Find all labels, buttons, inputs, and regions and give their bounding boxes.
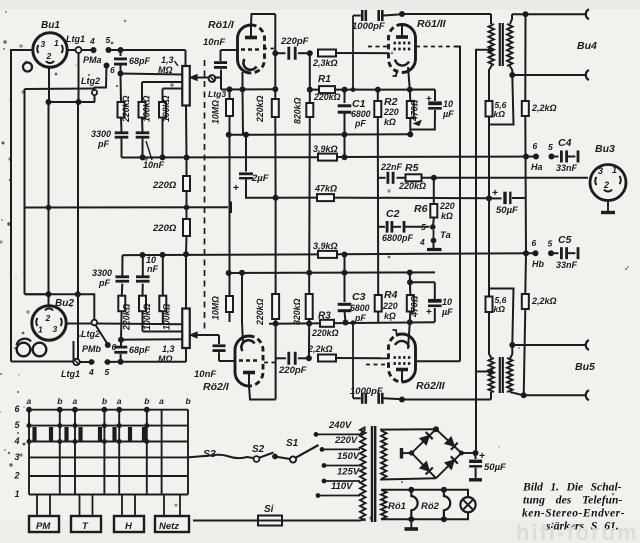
svg-text:Bild 1. Die Schal-: Bild 1. Die Schal- <box>522 481 622 494</box>
svg-text:µF: µF <box>442 109 454 119</box>
resistor R6 220k <box>433 178 435 204</box>
svg-text:C3: C3 <box>352 291 366 303</box>
capacitor 1000pF feedback ch2 <box>353 397 361 399</box>
resistor 2.2k grid stopper ch2 <box>318 355 336 362</box>
wire T2 secondary top <box>510 345 513 360</box>
capacitor 3300pF ch1 <box>120 118 123 133</box>
svg-text:+: + <box>426 94 432 105</box>
terminal Bu4 upper <box>586 9 589 19</box>
svg-text:3: 3 <box>15 452 20 462</box>
svg-text:+: + <box>233 182 239 194</box>
svg-text:220: 220 <box>382 301 398 311</box>
S3 contact nodes <box>27 423 32 428</box>
node bridge top corner <box>433 426 439 432</box>
svg-text:kΩ: kΩ <box>384 117 396 127</box>
svg-text:220Ω: 220Ω <box>152 180 177 191</box>
svg-text:R3: R3 <box>318 311 331 322</box>
svg-text:Ha: Ha <box>531 162 543 172</box>
scan artifact arrow <box>414 121 421 126</box>
resistor 220R lower <box>186 207 188 219</box>
svg-text:10nF: 10nF <box>194 369 216 380</box>
node T2 secondary bottom on rail <box>521 392 527 398</box>
svg-text:5: 5 <box>105 367 110 377</box>
svg-text:125V: 125V <box>337 467 360 478</box>
heater Rö1 element <box>411 490 417 520</box>
svg-text:kΩ: kΩ <box>494 109 506 119</box>
svg-text:220pF: 220pF <box>278 365 307 376</box>
resistor 220k input ch2 <box>120 311 123 340</box>
capacitor 10uF cathode ch1 <box>410 89 435 91</box>
wire middle bus C ground line y207.5 <box>25 206 229 208</box>
svg-text:2,3kΩ: 2,3kΩ <box>312 58 338 68</box>
svg-text:150V: 150V <box>337 451 360 462</box>
resistor 100k b ch2 <box>162 311 164 324</box>
svg-text:68pF: 68pF <box>129 56 151 66</box>
resistor 220R upper <box>186 158 188 177</box>
capacitor 10nF grid ch2 <box>218 335 220 344</box>
svg-text:10nF: 10nF <box>143 160 165 170</box>
resistor 220k plate ch2 <box>272 294 279 319</box>
terminal Ltg2 lower <box>92 320 98 326</box>
node R2 top <box>375 87 381 93</box>
transformer T2 core <box>499 357 501 393</box>
shield enclosure wire left border <box>11 50 32 362</box>
transformer TR heater secondary <box>381 490 387 520</box>
svg-text:Bu5: Bu5 <box>575 361 595 373</box>
svg-text:2: 2 <box>14 471 20 481</box>
svg-text:33nF: 33nF <box>556 163 578 173</box>
wire S3 to switch S2 <box>188 455 254 458</box>
node junction 68pF ch2 <box>118 359 124 365</box>
svg-text:S1: S1 <box>286 438 299 449</box>
svg-text:5: 5 <box>106 35 111 45</box>
grid system dashed link tubes ch1 <box>263 48 274 50</box>
plate rail x275 ch1 <box>274 14 276 99</box>
svg-text:Rö2/II: Rö2/II <box>416 380 446 392</box>
wire bus B 47k line <box>276 197 317 199</box>
plate rail x275 ch2 <box>275 198 277 294</box>
wire HV secondary to bridge top <box>381 429 436 430</box>
capacitor 68pF channel2 <box>120 354 122 362</box>
capacitor C4 33nF <box>552 156 559 158</box>
wire pot bottom stub ch2 <box>185 348 187 362</box>
capacitor 220pF coupling ch2 <box>276 357 286 359</box>
potentiometer 1.3M ch2 <box>182 309 190 349</box>
node 47k to 5.6k rail <box>486 195 492 201</box>
svg-text:a: a <box>117 396 122 406</box>
diode D4 bridge bottom-right <box>445 460 454 469</box>
svg-text:PMa: PMa <box>83 55 102 65</box>
wire Bu2 box bottom <box>11 341 74 362</box>
svg-text:Rö2/I: Rö2/I <box>203 381 230 393</box>
svg-text:4: 4 <box>419 237 425 247</box>
svg-text:Rö2: Rö2 <box>421 501 440 512</box>
wire 2uF to 47k bus B <box>246 180 276 198</box>
wire Rö2/I plate to rail <box>249 386 276 400</box>
node Hb tap on speaker rail ch2 <box>523 250 529 256</box>
capacitor 10nF ch2 <box>142 284 144 296</box>
heater bottom wire <box>381 518 467 520</box>
transformer TR HV secondary <box>381 431 387 479</box>
potentiometer 1.3M ch1 <box>185 50 187 66</box>
svg-text:a: a <box>159 396 164 406</box>
switch S3 matrix rows <box>29 409 188 411</box>
terminal Bu5 lower <box>586 390 589 400</box>
bridge rectifier diamond <box>412 429 436 453</box>
transformer T2 primary winding <box>489 358 495 392</box>
svg-text:3: 3 <box>598 166 603 176</box>
resistor R5 220k <box>406 174 422 181</box>
wire Bu2 pin2 bus y294 <box>25 293 78 295</box>
resistor 220k input ch1 <box>120 76 123 103</box>
rail 820k column <box>309 53 311 103</box>
svg-text:Ltg3: Ltg3 <box>208 89 226 99</box>
wire T2 primary top to 5.6k ch2 <box>489 312 492 359</box>
node cathode Rö1/I <box>240 86 246 92</box>
svg-text:220kΩ: 220kΩ <box>311 328 339 338</box>
wire Rö2/II cathode leg up <box>408 322 410 349</box>
svg-text:pF: pF <box>97 139 109 149</box>
node cathode cap junction ch2 <box>407 279 413 285</box>
resistor 10M ch1 <box>226 99 233 116</box>
svg-text:C5: C5 <box>558 234 572 246</box>
svg-text:220kΩ: 220kΩ <box>122 303 132 331</box>
node pin 6 <box>104 63 110 69</box>
node bus B x275 <box>273 195 279 201</box>
svg-text:Bu1: Bu1 <box>41 20 60 31</box>
node cathode Rö1/II <box>407 87 413 93</box>
svg-text:Rö1/I: Rö1/I <box>208 19 235 31</box>
diode D1 bridge top-left <box>420 436 429 445</box>
ground heater <box>410 519 412 527</box>
tube Rö2/I triode <box>235 336 249 386</box>
svg-text:PMb: PMb <box>82 344 102 354</box>
svg-text:b: b <box>144 396 149 406</box>
terminal bus C end bar <box>229 202 232 214</box>
svg-text:220kΩ: 220kΩ <box>398 181 426 191</box>
transformer T1 primary winding <box>489 24 495 65</box>
svg-text:100kΩ: 100kΩ <box>162 303 172 330</box>
tap 240V <box>316 433 360 435</box>
heater top wire <box>381 489 467 491</box>
wire tap1 ch2 to pot <box>121 338 183 341</box>
wire secondary bottom to Bu4 lower <box>512 74 586 76</box>
svg-text:110V: 110V <box>331 481 353 492</box>
resistor 47k <box>317 194 334 201</box>
node pin 6 lower <box>105 342 111 348</box>
svg-text:6: 6 <box>110 65 115 75</box>
svg-text:1,3: 1,3 <box>161 55 174 65</box>
svg-text:2: 2 <box>46 51 52 61</box>
resistor 5.6k ch1 <box>486 101 493 117</box>
svg-text:+: + <box>426 307 432 318</box>
svg-text:R4: R4 <box>384 289 398 301</box>
terminal Ltg1 <box>76 47 82 53</box>
wire Rö1/I plate to top rail <box>251 14 275 25</box>
wire plate line to output transformer T1 <box>402 13 491 15</box>
node junction below 68pF <box>118 71 124 77</box>
wire HV secondary bottom to bridge bottom <box>381 478 436 479</box>
screen shield dashed line <box>204 60 206 330</box>
svg-text:3,9kΩ: 3,9kΩ <box>313 144 338 154</box>
wire rail 229 middle <box>229 116 231 296</box>
wire pot tap3 <box>163 88 183 90</box>
svg-text:100kΩ: 100kΩ <box>142 303 152 330</box>
terminal Ltg1 lower <box>73 359 79 365</box>
svg-text:1: 1 <box>38 325 43 335</box>
heater Rö2 element <box>444 490 450 520</box>
svg-text:µF: µF <box>441 307 453 317</box>
wire cathode rail to bus <box>242 89 245 134</box>
svg-text:nF: nF <box>147 264 158 274</box>
svg-text:220kΩ: 220kΩ <box>255 298 265 326</box>
svg-text:b: b <box>57 396 62 406</box>
svg-text:47kΩ: 47kΩ <box>314 184 337 194</box>
svg-text:hifi-forum: hifi-forum <box>516 520 639 543</box>
wire Bu2 pin3 to pot tap <box>66 323 92 325</box>
wire pot top to bus D <box>185 254 187 308</box>
wire Rö1/II cathode leg <box>408 67 410 90</box>
wire Rö2/I cathode up <box>242 322 243 343</box>
svg-text:R5: R5 <box>405 162 419 174</box>
node T2 secondary top <box>509 342 515 348</box>
svg-text:220Ω: 220Ω <box>152 223 177 234</box>
wire 22nF to rail378 <box>378 177 380 179</box>
node junction 68pF top <box>118 47 124 53</box>
wire cathode bus E y272.6 <box>229 271 435 274</box>
resistor 100k a ch2 <box>142 311 144 331</box>
svg-text:C2: C2 <box>386 208 400 220</box>
wire secondary sense ch2 to 5.6k <box>489 289 514 346</box>
svg-text:pF: pF <box>98 278 110 288</box>
svg-text:1000pF: 1000pF <box>352 21 385 32</box>
wire R1 line y89.6 <box>309 89 435 91</box>
wire grid into tube Rö2/I <box>219 360 236 362</box>
capacitor 10nF ch1 (in 100k leg) <box>141 118 144 132</box>
cable grommet holes at Bu2 <box>17 343 31 357</box>
wire feedback bus A y157.5 <box>122 156 319 158</box>
resistor R3 220k <box>320 320 334 327</box>
node Ha tap on speaker rail <box>523 154 529 160</box>
resistor 100k a ch1 <box>141 82 143 102</box>
svg-text:3: 3 <box>41 39 46 49</box>
svg-text:220kΩ: 220kΩ <box>255 95 265 123</box>
node Bu3 pin6 upper <box>533 154 539 160</box>
terminal Bu5 upper <box>586 340 589 350</box>
node 820k R3 <box>306 321 312 327</box>
tap 150V <box>324 465 360 467</box>
resistor 3.9k feedback ch1 <box>318 154 337 161</box>
svg-text:3,9kΩ: 3,9kΩ <box>313 241 338 251</box>
resistor 470R cathode ch2 <box>409 312 412 323</box>
ground 50uF <box>475 468 477 478</box>
tube Rö2/II pentode <box>389 334 403 382</box>
S3 row6 junction nodes <box>26 407 32 413</box>
capacitor C2 6800pF <box>378 226 385 228</box>
wire secondary sense to 5.6k foot <box>489 75 514 125</box>
node Rö2/II plate <box>399 397 405 403</box>
svg-text:5: 5 <box>548 239 553 249</box>
tap 125V <box>324 480 360 482</box>
svg-text:220pF: 220pF <box>280 36 309 47</box>
wiper arrow ch2 <box>190 334 219 336</box>
node Bu3 pin6 lower <box>533 250 539 256</box>
node Ta pin 5 <box>430 224 436 230</box>
node Bu3 pin5 lower <box>548 250 554 256</box>
capacitor 10nF grid ch1 <box>220 70 222 90</box>
connector Bu2 <box>32 306 66 340</box>
capacitor 220pF coupling ch1 <box>275 52 285 54</box>
node grid2 junction <box>307 50 313 56</box>
svg-text:Bu3: Bu3 <box>595 143 615 155</box>
node pin4 lower <box>89 359 95 365</box>
svg-text:220V: 220V <box>334 435 358 446</box>
svg-text:1,3: 1,3 <box>162 344 175 354</box>
svg-text:6: 6 <box>533 141 538 151</box>
svg-text:H: H <box>125 521 133 532</box>
wire T1 primary bottom to 5.6k rail <box>489 65 492 101</box>
svg-text:2: 2 <box>45 313 51 323</box>
node pin 4 <box>91 47 97 53</box>
svg-text:10nF: 10nF <box>203 37 225 48</box>
svg-text:MΩ: MΩ <box>158 354 173 364</box>
resistor 220k plate ch1 <box>272 99 279 117</box>
svg-text:+: + <box>479 450 485 462</box>
tap 220V <box>322 448 360 450</box>
svg-text:b: b <box>186 396 191 406</box>
wire T1 secondary top to Bu4 <box>510 14 512 24</box>
resistor R2 220k <box>377 90 379 101</box>
svg-text:Si: Si <box>264 504 274 515</box>
label 10nF pointer <box>146 141 152 160</box>
svg-text:Rö1: Rö1 <box>388 501 406 512</box>
wire plate line to transformer T2 <box>402 399 491 401</box>
node grid2 ch2 <box>306 355 312 361</box>
svg-text:2: 2 <box>603 180 609 190</box>
node junction above 68pF ch2 <box>118 337 124 343</box>
wire T1 secondary bottom <box>510 66 513 76</box>
svg-text:2,2kΩ: 2,2kΩ <box>307 344 333 354</box>
terminal Ltg2 top <box>92 90 97 95</box>
wire feedback bus D y254 ch2 <box>122 253 318 256</box>
switch S3 matrix columns <box>28 410 30 495</box>
wire pin6 to Ltg2 <box>95 66 107 91</box>
wire T1 primary tap to B+ rail <box>488 47 494 53</box>
svg-text:Rö1/II: Rö1/II <box>417 18 447 30</box>
capacitor 1000pF feedback ch1 <box>353 15 361 17</box>
svg-text:C4: C4 <box>558 137 572 149</box>
wiper arrow ch1 from Ltg3 <box>190 77 208 79</box>
svg-text:pF: pF <box>354 313 366 323</box>
wire Bu2 pin2 stem <box>48 294 50 307</box>
node Ltg1 bus <box>76 99 82 105</box>
button T <box>71 516 101 532</box>
svg-text:2µF: 2µF <box>251 173 269 184</box>
svg-text:240V: 240V <box>328 420 352 431</box>
svg-text:6800pF: 6800pF <box>382 233 414 243</box>
resistor 820k ch1 <box>306 103 313 117</box>
wire to Bu5 upper <box>512 344 586 346</box>
resistor 10M ch2 <box>226 296 233 312</box>
svg-text:50µF: 50µF <box>496 205 518 216</box>
capacitor C1 6800pF <box>344 90 346 103</box>
svg-text:4: 4 <box>88 367 94 377</box>
svg-text:Ltg2: Ltg2 <box>81 329 100 339</box>
svg-text:MΩ: MΩ <box>158 65 173 75</box>
svg-text:kΩ: kΩ <box>384 311 396 321</box>
svg-text:820kΩ: 820kΩ <box>292 298 302 325</box>
svg-text:Netz: Netz <box>159 521 179 532</box>
transformer TR core <box>371 426 373 522</box>
wire R6 to Ta pin5 <box>432 218 435 228</box>
cable grommet hole at Bu1 <box>23 63 32 72</box>
wire Bu1 pin2 down <box>48 67 50 103</box>
node Rö1/II plate <box>399 11 405 17</box>
wire shield bus y102 <box>48 101 96 103</box>
S3 contact bars <box>32 427 36 442</box>
wire bridge right corner to B+ node <box>461 452 475 454</box>
capacitor 10uF cathode ch2 <box>410 281 435 283</box>
svg-text:kΩ: kΩ <box>441 211 453 221</box>
resistor 2.2k ch2 <box>524 254 527 294</box>
capacitor 50uF upper electrolytic <box>489 197 502 199</box>
diode D2 bridge top-right <box>445 437 454 446</box>
resistor 470R cathode ch1 <box>409 90 412 102</box>
svg-text:1: 1 <box>54 38 59 48</box>
resistor 820k ch2 <box>306 294 313 319</box>
capacitor 68pF channel1 <box>120 52 122 56</box>
svg-text:220kΩ: 220kΩ <box>313 92 341 102</box>
node pin 5 <box>106 47 112 53</box>
grid dashed link tubes ch2 <box>264 362 276 364</box>
wire tap1 to volume pot <box>121 74 183 75</box>
svg-text:Bu2: Bu2 <box>55 298 74 309</box>
lamp pilot <box>460 497 475 512</box>
svg-text:22nF: 22nF <box>380 162 403 172</box>
bridge AC input bar <box>400 448 403 459</box>
transformer T1 secondary winding <box>507 24 513 66</box>
wire bus Ltg2 left <box>25 88 95 91</box>
resistor 5.6k ch2 <box>486 297 493 313</box>
svg-text:kΩ: kΩ <box>494 304 506 314</box>
svg-text:R1: R1 <box>318 74 331 85</box>
svg-text:33nF: 33nF <box>556 260 578 270</box>
svg-text:10MΩ: 10MΩ <box>211 100 221 124</box>
capacitor C5 33nF <box>551 252 559 254</box>
wire Ltg2 down to shield bus <box>94 95 96 102</box>
wire grid into tube Rö1/I <box>221 49 240 51</box>
svg-text:10: 10 <box>442 297 452 307</box>
node cathode ch2 <box>407 319 413 325</box>
svg-text:6: 6 <box>532 238 537 248</box>
wire pot tap2 <box>142 81 183 83</box>
svg-text:+: + <box>492 187 498 199</box>
svg-text:68pF: 68pF <box>129 345 151 355</box>
svg-text:3300: 3300 <box>92 268 112 278</box>
svg-text:S2: S2 <box>252 444 265 455</box>
svg-text:b: b <box>102 396 107 406</box>
button PM <box>29 516 59 532</box>
resistor 2.3k grid stopper ch1 <box>318 50 336 57</box>
node secondary rail top <box>523 11 529 17</box>
capacitor 22nF <box>380 177 386 179</box>
svg-text:Ltg2: Ltg2 <box>81 76 100 86</box>
tube Rö1/I triode <box>238 25 252 73</box>
svg-text:Ltg1: Ltg1 <box>66 34 85 44</box>
svg-text:220: 220 <box>383 107 399 117</box>
node pot bottom <box>184 155 190 161</box>
resistor 3.9k feedback ch2 <box>318 251 337 258</box>
